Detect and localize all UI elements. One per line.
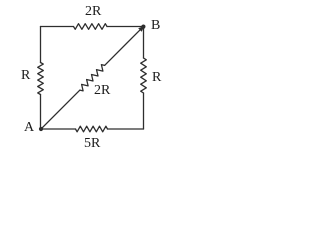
resistor R (right edge) (141, 58, 147, 93)
wire: bottom edge left lead (41, 128, 76, 130)
resistor 2R (diagonal) (80, 65, 105, 91)
label R (right resistor value) (152, 71, 161, 85)
wire: right edge bottom lead (143, 93, 145, 129)
wire: left edge top lead (40, 27, 42, 63)
label 2R (top resistor value) (85, 5, 101, 19)
wire: top edge right lead (107, 26, 144, 28)
node A label (24, 121, 34, 135)
node B label (151, 19, 160, 33)
label 5R (bottom resistor value) (84, 137, 100, 151)
wire: left edge bottom lead (40, 95, 42, 130)
wire: diagonal upper lead to B (105, 29, 141, 66)
wire: top edge left lead (41, 26, 74, 28)
node B junction dot (141, 25, 145, 29)
wire: bottom edge right lead (108, 128, 144, 130)
wire: diagonal lower lead A to resistor (41, 90, 80, 129)
arrowhead at B on diagonal (138, 26, 144, 32)
resistor 2R (top edge) (74, 24, 108, 30)
node A junction dot (39, 127, 43, 131)
label R (left resistor value) (21, 69, 30, 83)
label 2R (diagonal resistor value) (94, 84, 110, 98)
resistor 5R (bottom edge) (76, 126, 108, 132)
resistor R (left edge) (38, 63, 44, 95)
wire: right edge top lead (143, 27, 145, 59)
